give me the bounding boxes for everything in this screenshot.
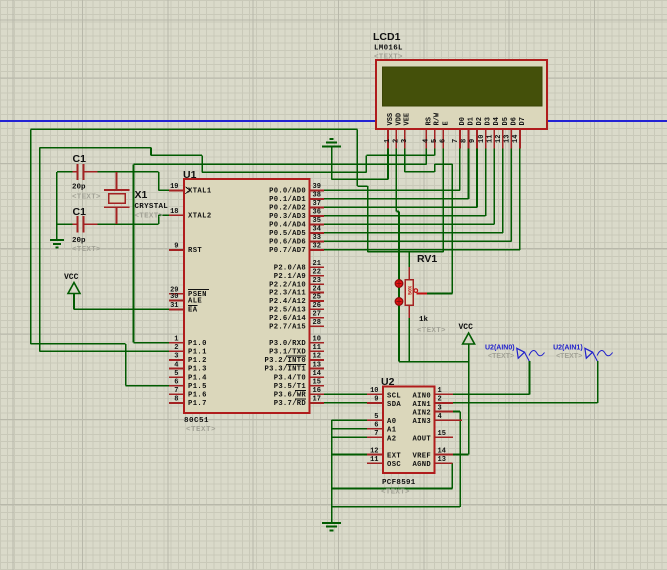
wire second top horizontal (RW net)	[40, 147, 151, 149]
svg-text:P1.5: P1.5	[188, 383, 207, 391]
svg-text:11: 11	[313, 344, 321, 352]
pin 21 P2.0/A8 of U1	[274, 260, 324, 272]
svg-text:6: 6	[374, 422, 378, 430]
ic U1 80C51 body	[184, 179, 310, 413]
svg-text:50%: 50%	[408, 286, 414, 295]
svg-text:11: 11	[370, 456, 378, 464]
wire AIN1 generator vertical	[597, 361, 599, 403]
wire VDD jog	[396, 211, 399, 213]
label RV1 value 1k	[419, 316, 429, 324]
svg-text:7: 7	[452, 139, 460, 143]
pin 10 D3 of LCD1	[478, 117, 493, 148]
svg-text:<TEXT>: <TEXT>	[186, 426, 216, 434]
pin 1 AIN0 of U2	[413, 387, 453, 400]
svg-text:3: 3	[174, 353, 178, 361]
pin 2 VDD of LCD1	[393, 113, 404, 149]
wire P0.5 to LCD D5 horizontal	[324, 232, 503, 234]
svg-text:12: 12	[495, 135, 503, 143]
wire RS net vertical to P1.0	[133, 164, 135, 342]
svg-text:16: 16	[313, 387, 321, 395]
svg-text:P0.3/AD3: P0.3/AD3	[269, 213, 306, 221]
svg-text:XTAL2: XTAL2	[188, 212, 212, 220]
svg-text:E: E	[442, 121, 450, 125]
label U2(AIN0) text placeholder	[488, 353, 514, 360]
junction dot RV1 bottom terminal	[395, 298, 403, 306]
pin 10 P3.0/RXD of U1	[269, 336, 324, 348]
lcd LCD1 screen	[383, 67, 543, 106]
pin 14 VREF of U2	[413, 447, 453, 460]
svg-text:X1: X1	[135, 189, 148, 201]
label U1 reference	[183, 169, 197, 181]
pin 14 P3.4/T0 of U1	[274, 370, 324, 382]
svg-text:2: 2	[393, 139, 401, 143]
svg-text:35: 35	[313, 217, 321, 225]
svg-text:1k: 1k	[419, 316, 429, 324]
svg-text:P0.2/AD2: P0.2/AD2	[269, 205, 306, 213]
wire E net vertical mid	[356, 129, 358, 186]
svg-text:5: 5	[431, 139, 439, 143]
wire LCD RW pin vertical	[434, 149, 436, 156]
pin 37 P0.2/AD2 of U1	[269, 200, 324, 212]
wire LCD D6 vertical	[510, 149, 512, 242]
generator U2(AIN0) sine source	[517, 348, 545, 361]
pin 39 P0.0/AD0 of U1	[269, 183, 324, 195]
label U2(AIN1)	[553, 345, 583, 352]
wire LCD D2 vertical	[476, 149, 478, 208]
svg-text:6: 6	[174, 379, 178, 387]
pin 7 D0 of LCD1	[452, 117, 467, 148]
wire AIN2 vertical	[459, 412, 461, 507]
pin 26 P2.5/A13 of U1	[269, 302, 324, 314]
pin 4 RS of LCD1	[423, 117, 434, 148]
svg-text:19: 19	[170, 183, 178, 191]
svg-text:P2.2/A10: P2.2/A10	[269, 281, 306, 289]
svg-text:31: 31	[170, 302, 178, 310]
svg-text:AIN0: AIN0	[413, 392, 431, 400]
svg-text:P0.1/AD1: P0.1/AD1	[269, 196, 306, 204]
wire AGND horizontal to ground bus	[332, 488, 453, 490]
wire P0.2 to LCD D2 horizontal	[324, 206, 477, 208]
wire to P1.5 pin	[126, 385, 169, 387]
pin 9 RST of U1	[169, 243, 202, 255]
pin 8 D1 of LCD1	[461, 117, 476, 148]
pin 6 A1 of U2	[367, 422, 397, 435]
svg-text:25: 25	[313, 294, 321, 302]
wire LCD RS pin vertical	[425, 149, 427, 165]
label U2(AIN1) text placeholder	[556, 353, 582, 360]
pin 1 VSS of LCD1	[384, 113, 395, 149]
wire U2 EXT to ground bus	[332, 454, 367, 456]
svg-text:14: 14	[438, 447, 446, 455]
pin 35 P0.4/AD4 of U1	[269, 217, 324, 229]
wire RW net drop	[201, 155, 203, 172]
pin 11 D4 of LCD1	[486, 117, 501, 148]
wire LCD D5 vertical	[502, 149, 504, 233]
wire RW net rise	[365, 155, 367, 172]
svg-text:10: 10	[370, 387, 378, 395]
svg-text:13: 13	[504, 135, 512, 143]
ground symbol left (crystal caps)	[50, 240, 64, 248]
pin 4 P1.3 of U1	[169, 361, 207, 373]
pin 13 D6 of LCD1	[504, 117, 519, 148]
svg-text:U2(AIN0): U2(AIN0)	[485, 345, 515, 352]
pin 15 P3.5/T1 of U1	[274, 379, 324, 391]
generator U2(AIN1) sine source	[585, 348, 613, 361]
svg-text:AGND: AGND	[413, 461, 432, 469]
wire VEE horizontal	[405, 171, 435, 173]
svg-text:23: 23	[313, 277, 321, 285]
pin 13 P3.3/INT1 of U1	[264, 361, 324, 373]
svg-text:39: 39	[313, 183, 321, 191]
svg-text:1: 1	[384, 139, 392, 143]
svg-text:14: 14	[512, 135, 520, 143]
svg-text:R/W: R/W	[434, 112, 442, 125]
svg-text:VCC: VCC	[64, 273, 79, 282]
ic U2 PCF8591 body	[383, 387, 435, 474]
wire XTAL1 vertical	[158, 172, 160, 191]
pin 4 AIN3 of U2	[413, 413, 462, 426]
svg-text:D1: D1	[468, 117, 476, 125]
svg-text:1: 1	[174, 336, 178, 344]
svg-text:7: 7	[174, 387, 178, 395]
wire RW net horizontal 2	[202, 171, 366, 173]
wire P0.3 to LCD D3 horizontal	[324, 215, 486, 217]
pin 33 P0.6/AD6 of U1	[269, 234, 324, 246]
pin 34 P0.5/AD5 of U1	[269, 226, 324, 238]
svg-text:P2.4/A12: P2.4/A12	[269, 298, 306, 306]
svg-text:XTAL1: XTAL1	[188, 188, 212, 196]
svg-text:P2.1/A9: P2.1/A9	[274, 273, 306, 281]
svg-text:AIN2: AIN2	[413, 410, 431, 418]
label U2 text placeholder	[381, 489, 410, 497]
svg-text:10: 10	[478, 135, 486, 143]
wire VCC2 vertical	[468, 344, 470, 455]
pin 8 P1.7 of U1	[169, 396, 207, 408]
pin 9 SDA of U2	[367, 396, 401, 409]
wire wiper vertical	[451, 164, 453, 293]
svg-text:ALE: ALE	[188, 298, 202, 306]
wire second left vertical	[39, 148, 41, 352]
svg-text:U2: U2	[381, 376, 395, 388]
wire U2 ground bus vertical	[331, 420, 333, 523]
svg-text:U2(AIN1): U2(AIN1)	[553, 345, 583, 352]
wire LCD D3 vertical	[485, 149, 487, 216]
svg-text:VCC: VCC	[459, 323, 474, 332]
capacitor C1b	[73, 216, 98, 232]
wire VCC to EA horizontal	[74, 308, 169, 310]
svg-text:27: 27	[313, 311, 321, 319]
wire VDD vertical to VCC rail	[398, 212, 400, 362]
svg-text:VDD: VDD	[395, 113, 403, 126]
svg-text:D0: D0	[459, 117, 467, 125]
svg-text:36: 36	[313, 209, 321, 217]
svg-text:C1: C1	[73, 153, 87, 165]
crystal X1	[104, 172, 129, 224]
svg-text:EA: EA	[188, 307, 198, 315]
svg-text:20p: 20p	[72, 184, 86, 192]
svg-text:33: 33	[313, 234, 321, 242]
wire AIN0 generator vertical	[529, 361, 531, 394]
svg-text:SCL: SCL	[387, 392, 401, 400]
svg-text:LCD1: LCD1	[373, 31, 401, 43]
wire AIN1 horizontal to generator	[453, 402, 598, 404]
svg-text:3: 3	[438, 404, 442, 412]
svg-text:4: 4	[438, 413, 442, 421]
svg-text:<TEXT>: <TEXT>	[417, 327, 446, 335]
wire XTAL2 vertical	[158, 215, 160, 224]
label U2 value PCF8591	[382, 479, 416, 487]
svg-text:PCF8591: PCF8591	[382, 479, 416, 487]
svg-text:37: 37	[313, 200, 321, 208]
wire P0.7 to LCD D7 horizontal	[324, 249, 520, 251]
wire E net jog	[357, 185, 367, 187]
svg-text:D3: D3	[485, 117, 493, 125]
svg-text:30: 30	[170, 293, 178, 301]
svg-text:4: 4	[174, 361, 178, 369]
svg-text:8: 8	[461, 139, 469, 143]
svg-text:P1.6: P1.6	[188, 392, 207, 400]
label C1a value 20p	[72, 184, 86, 192]
svg-text:7: 7	[374, 430, 378, 438]
label RV1 text placeholder	[417, 327, 446, 335]
wire AIN2 horizontal to ground bus	[332, 506, 461, 508]
wire AGND vertical	[451, 463, 453, 488]
pin 13 AGND of U2	[413, 456, 453, 469]
svg-text:LM016L: LM016L	[374, 45, 403, 53]
svg-text:D5: D5	[502, 117, 510, 125]
pin 22 P2.1/A9 of U1	[274, 269, 324, 281]
svg-text:SDA: SDA	[387, 401, 401, 409]
wire to P1.0 pin	[134, 342, 170, 344]
label X1 text placeholder	[135, 213, 164, 221]
label U2(AIN0)	[485, 345, 515, 352]
svg-text:A0: A0	[387, 418, 396, 426]
svg-text:<TEXT>: <TEXT>	[72, 246, 101, 254]
pin 18 XTAL2 of U1	[169, 208, 212, 220]
pin 3 P1.2 of U1	[169, 353, 207, 365]
wire LCD D7 vertical	[519, 149, 521, 250]
svg-text:P3.5/T1: P3.5/T1	[274, 383, 307, 391]
capacitor C1a	[73, 164, 98, 180]
label C1a reference	[73, 153, 87, 165]
junction dot RV1 top terminal	[395, 280, 403, 288]
wire C1b left plate to ground rail	[57, 223, 73, 225]
svg-text:5: 5	[174, 370, 178, 378]
wire to XTAL2 pin	[159, 214, 169, 216]
svg-text:P3.3/INT1: P3.3/INT1	[264, 366, 306, 374]
svg-text:80C51: 80C51	[184, 417, 209, 425]
pin 14 D7 of LCD1	[512, 117, 527, 148]
svg-text:RST: RST	[188, 247, 202, 255]
svg-text:D2: D2	[476, 117, 484, 125]
pin 3 AIN2 of U2	[413, 404, 453, 417]
pin 11 P3.1/TXD of U1	[269, 344, 324, 356]
svg-text:RS: RS	[425, 117, 433, 125]
svg-text:A2: A2	[387, 435, 396, 443]
svg-text:4: 4	[423, 139, 431, 143]
wire pot bottom to VCC horizontal	[399, 361, 469, 363]
pin 15 AOUT of U2	[413, 430, 453, 443]
wire left bus to P1.5 vertical	[30, 129, 32, 343]
pin 27 P2.6/A14 of U1	[269, 311, 324, 323]
pin 25 P2.4/A12 of U1	[269, 294, 324, 306]
svg-text:<TEXT>: <TEXT>	[135, 213, 164, 221]
svg-text:VREF: VREF	[413, 453, 431, 461]
label C1b reference	[73, 206, 87, 218]
svg-text:21: 21	[313, 260, 321, 268]
svg-text:5: 5	[374, 413, 378, 421]
pin 30 ALE of U1	[169, 293, 202, 305]
wire P0.1 to LCD D1 horizontal	[324, 198, 468, 200]
svg-text:CRYSTAL: CRYSTAL	[135, 203, 169, 211]
svg-text:C1: C1	[73, 206, 87, 218]
svg-text:VSS: VSS	[387, 113, 395, 126]
svg-text:D6: D6	[510, 117, 518, 125]
pin 36 P0.3/AD3 of U1	[269, 209, 324, 221]
potentiometer RV1	[405, 267, 427, 318]
svg-text:P0.4/AD4: P0.4/AD4	[269, 222, 306, 230]
ground symbol bottom (U2)	[322, 523, 341, 531]
svg-text:15: 15	[313, 379, 321, 387]
svg-text:U1: U1	[183, 169, 197, 181]
pin 24 P2.3/A11 of U1	[269, 285, 324, 297]
pin 16 P3.6/WR of U1	[274, 387, 324, 399]
svg-text:26: 26	[313, 302, 321, 310]
power symbol VCC right	[459, 323, 475, 344]
svg-text:P3.2/INT0: P3.2/INT0	[264, 357, 306, 365]
svg-text:34: 34	[313, 226, 321, 234]
svg-text:P2.7/A15: P2.7/A15	[269, 323, 306, 331]
svg-text:P3.4/T0: P3.4/T0	[274, 374, 306, 382]
wire VREF horizontal	[453, 454, 469, 456]
svg-text:10: 10	[313, 336, 321, 344]
pin 11 OSC of U2	[367, 456, 401, 469]
svg-text:P2.0/A8: P2.0/A8	[274, 265, 306, 273]
svg-text:OSC: OSC	[387, 461, 401, 469]
pin 23 P2.2/A10 of U1	[269, 277, 324, 289]
pin 7 P1.6 of U1	[169, 387, 207, 399]
lcd LCD1 LM016L body	[376, 60, 547, 129]
svg-text:12: 12	[313, 353, 321, 361]
svg-text:6: 6	[440, 139, 448, 143]
svg-text:P0.7/AD7: P0.7/AD7	[269, 247, 306, 255]
svg-text:P0.0/AD0: P0.0/AD0	[269, 188, 306, 196]
wire to P1.1 pin	[40, 350, 169, 352]
pin 5 P1.4 of U1	[169, 370, 207, 382]
svg-text:9: 9	[374, 396, 378, 404]
wire U2 A2 to ground bus	[332, 436, 367, 438]
wire pot bottom vertical	[408, 318, 410, 362]
svg-text:P3.0/RXD: P3.0/RXD	[269, 340, 306, 348]
svg-text:24: 24	[313, 285, 321, 293]
label LCD1 value LM016L	[374, 45, 403, 53]
label LCD1 reference	[373, 31, 401, 43]
power symbol VCC left	[64, 273, 80, 294]
wire C1a right to XTAL1 corner	[97, 171, 158, 173]
svg-text:AOUT: AOUT	[413, 435, 432, 443]
svg-text:<TEXT>: <TEXT>	[556, 353, 582, 360]
wire RW net step down	[150, 148, 152, 156]
svg-text:P2.6/A14: P2.6/A14	[269, 315, 306, 323]
svg-text:13: 13	[313, 361, 321, 369]
pin 12 P3.2/INT0 of U1	[264, 353, 324, 365]
pin 31 EA of U1	[169, 302, 198, 314]
label X1 value CRYSTAL	[135, 203, 169, 211]
svg-text:32: 32	[313, 243, 321, 251]
svg-text:2: 2	[174, 344, 178, 352]
pin 17 P3.7/RD of U1	[274, 396, 324, 408]
svg-text:<TEXT>: <TEXT>	[374, 54, 403, 62]
svg-text:17: 17	[313, 396, 321, 404]
wire LCD VSS pin vertical	[387, 149, 389, 180]
label U2 reference	[381, 376, 395, 388]
pin 9 D2 of LCD1	[469, 117, 484, 148]
svg-text:VEE: VEE	[404, 113, 412, 126]
wire VCC to EA vertical	[73, 294, 75, 309]
svg-text:P3.6/WR: P3.6/WR	[274, 392, 307, 400]
wire E net vertical 2	[367, 186, 369, 252]
pin 2 P1.1 of U1	[169, 344, 207, 356]
svg-text:AIN1: AIN1	[413, 401, 432, 409]
wire P1.5 horizontal lower	[31, 343, 126, 345]
svg-text:P3.1/TXD: P3.1/TXD	[269, 349, 306, 357]
svg-text:9: 9	[174, 243, 178, 251]
svg-text:P0.6/AD6: P0.6/AD6	[269, 239, 306, 247]
svg-text:38: 38	[313, 192, 321, 200]
svg-text:P2.5/A13: P2.5/A13	[269, 307, 306, 315]
wire LCD E pin vertical	[442, 149, 444, 252]
svg-text:12: 12	[370, 447, 378, 455]
pin 38 P0.1/AD1 of U1	[269, 192, 324, 204]
svg-text:P1.4: P1.4	[188, 374, 207, 382]
wire C1b right to XTAL2 corner	[97, 223, 158, 225]
wire ground stem upper	[331, 147, 333, 179]
wire ground rail vertical (caps)	[56, 172, 58, 240]
pin 5 A0 of U2	[367, 413, 396, 426]
wire pot top vertical	[408, 252, 410, 267]
wire P0.4 to LCD D4 horizontal	[324, 223, 494, 225]
svg-text:D4: D4	[493, 117, 501, 125]
pin 6 E of LCD1	[440, 121, 451, 148]
svg-text:P1.0: P1.0	[188, 340, 207, 348]
svg-text:D7: D7	[519, 117, 527, 125]
pin 12 D5 of LCD1	[495, 117, 510, 148]
svg-text:P1.3: P1.3	[188, 366, 207, 374]
pin 5 R/W of LCD1	[431, 112, 442, 148]
wire P3.6 to U2 SCL	[324, 393, 367, 395]
pin XTAL1 clock chevron	[186, 187, 190, 194]
pin 19 XTAL1 of U1	[169, 183, 212, 195]
wire LCD D1 vertical	[467, 149, 469, 199]
svg-text:14: 14	[313, 370, 321, 378]
wire VEE jog up	[434, 164, 436, 172]
wire wiper horizontal	[427, 293, 452, 295]
svg-text:13: 13	[438, 456, 446, 464]
label RV1 reference	[417, 253, 437, 265]
wire LCD VDD pin vertical	[395, 149, 397, 212]
wire RW net horizontal 1	[151, 154, 202, 156]
pin 1 P1.0 of U1	[169, 336, 207, 348]
pin 32 P0.7/AD7 of U1	[269, 243, 324, 255]
label C1b value 20p	[72, 237, 86, 245]
wire P1.5 vertical drop	[125, 344, 127, 386]
svg-text:A1: A1	[387, 427, 397, 435]
svg-text:22: 22	[313, 269, 321, 277]
label LCD1 text placeholder	[374, 54, 403, 62]
svg-text:P0.5/AD5: P0.5/AD5	[269, 230, 306, 238]
svg-text:<TEXT>: <TEXT>	[72, 194, 101, 202]
pin 3 VEE of LCD1	[401, 113, 412, 149]
